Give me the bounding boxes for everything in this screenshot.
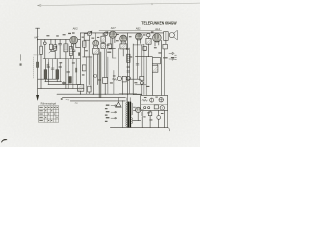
antenna terminal bar [36,27,40,29]
wire [75,59,77,85]
pot P2 [56,70,59,80]
coil L4 [69,47,72,56]
wire [113,70,115,94]
ABL1 legs [137,40,140,45]
hv feed box [140,76,144,80]
wire [88,40,90,84]
svg-text:AF7: AF7 [111,26,116,30]
tube AK2 [70,36,78,44]
secondary winding [132,103,133,115]
resistor R1 tall box [40,40,42,47]
choke coil [127,54,130,62]
wire [102,33,104,44]
wire [79,91,81,94]
capacitor C6 [72,50,75,59]
bus line [43,58,80,60]
bottom power rail [110,127,167,129]
wire [47,59,49,85]
V3 legs [121,42,125,56]
resistor R20 zigzag [142,99,147,101]
wire [93,54,97,94]
wire [147,37,149,57]
svg-text:TELEFUNKEN 664GW: TELEFUNKEN 664GW [141,21,177,26]
node [148,56,149,57]
wire pair [128,48,130,94]
ground arrow (chassis) [36,95,39,101]
antenna wire (off-page, faint) [38,3,201,6]
wire [149,110,151,127]
wire mains drop [122,101,124,128]
wire [163,110,165,127]
wire [113,57,116,59]
bottom rail B [62,97,125,99]
jack J2 [169,58,174,60]
AL4 legs [155,42,159,46]
mains labels [105,105,110,122]
wire [98,49,100,52]
wire [143,44,145,94]
node dots bottom rail [80,94,134,95]
osc electrodes [94,41,97,45]
pilot lamp [150,98,154,102]
long wire right [161,40,163,95]
tube AF7 [109,31,116,38]
wire [85,57,87,94]
bus segment [135,84,146,86]
wire [164,49,166,96]
wire [88,92,90,94]
rail hook [168,128,170,131]
antenna wire junction bead [151,3,153,5]
switch circle with cross [159,98,163,102]
contact marks [175,55,177,59]
wire [90,57,92,89]
antenna wire arrowhead [38,4,42,6]
wire [54,50,56,59]
wire pair down [104,49,106,78]
wire [145,56,147,95]
variable capacitor VC2 [104,32,108,36]
wire [133,94,142,96]
wire box edge down [167,110,169,127]
bus line [45,81,62,83]
top rail [80,32,163,34]
wire [107,57,109,94]
primary winding [126,102,127,126]
speaker [169,33,174,38]
table entries [39,98,62,121]
switch S1 circle [43,42,46,45]
coil L5 box [83,41,86,47]
wire [122,79,123,95]
AK2 electrodes [71,37,76,43]
wire [126,98,128,102]
AK2 legs [72,44,76,50]
osc section wire [84,34,87,41]
wire link [133,44,144,46]
trimmer arrow [49,46,57,53]
svg-text:Röhrenspiegel: Röhrenspiegel [41,103,57,106]
wire [76,47,81,49]
grid cap small circle [147,33,150,36]
wire [95,33,97,40]
wire [44,59,46,82]
bus [135,55,152,57]
resistor box R7 [103,78,108,84]
wire [70,40,73,59]
corner squiggle [2,139,7,142]
chassis box power unit [141,95,168,110]
wire [65,52,67,89]
V3 electrodes [121,36,125,41]
capacitor box C11 [88,86,91,92]
AL4 electrodes [154,34,159,41]
wire [84,36,89,41]
svg-text:AK2: AK2 [73,26,79,30]
wire [141,45,143,96]
resistor box R5 [82,65,86,71]
IF transformer T-IF1 [101,36,105,42]
antenna lead-in vertical [37,28,39,95]
resistor R8 zigzag [112,78,117,80]
V3 coupling can [120,44,127,49]
margin mark dash [20,55,22,61]
wire [141,117,143,128]
wire [109,48,116,58]
capacitor C7 [67,72,70,73]
capacitor C5 [62,82,65,85]
svg-text:AB2: AB2 [136,28,141,31]
detector circle [126,76,130,80]
coil L2 [54,40,56,45]
svg-text:4 g: 4 g [75,103,78,105]
wire [52,59,54,79]
coil L3 [65,40,67,44]
node [122,100,123,101]
capacitor C4 [51,68,54,69]
wire [51,50,55,52]
AF7 electrodes [110,32,115,37]
ABL1 electrodes [137,34,141,39]
wire [141,109,144,111]
small circle node osc [94,74,97,77]
wire stub [34,54,41,56]
shielded lead pair [99,52,101,98]
bottom rail A [57,93,141,95]
wire [165,40,167,44]
coupling can hatched [146,38,151,44]
wire [137,45,139,79]
wire [133,107,135,110]
wire [128,78,141,80]
tube bandpass V3 [120,35,127,42]
shield dashed line [33,57,35,79]
output transformer [164,32,169,41]
IF can hatched [78,85,84,92]
electrolytic block [69,77,72,84]
variable capacitor VC1 [88,31,92,35]
node antenna/rail [37,39,38,40]
capacitor C14 [126,48,129,49]
pot P1 wiper [47,62,49,81]
rectifier tube [136,107,141,112]
tube ABL1 [135,33,142,40]
long wire [79,33,81,85]
internal shelf [141,104,168,106]
coupling cap box [143,46,146,50]
jack J1 [169,52,174,54]
capacitor block hatched [152,65,158,72]
capacitor C1 box [50,40,52,45]
pot P2 wiper [59,62,61,81]
wire [40,54,42,88]
power transformer core [127,102,129,128]
capacitor C15 [127,66,130,72]
osc coil hatched box [93,46,97,48]
wire [67,59,69,89]
antenna coil L1 [36,62,38,68]
wire [133,113,141,121]
speaker field triangle [116,102,121,106]
svg-text:a g: a g [66,99,69,101]
tube osc triode [93,40,99,46]
margin mark glyph [20,63,22,65]
small circle node [140,82,143,85]
resistor box R9 [122,76,126,82]
capacitor C16 [136,64,139,65]
bus line [38,78,57,80]
fuse box [154,105,158,109]
mains arrows [111,105,117,107]
wire [72,59,74,89]
bus line [38,88,84,90]
svg-text:AAT: AAT [34,37,39,40]
switch S1 contact [44,40,46,42]
tube table grid [39,106,59,122]
node dots on input rail [44,39,72,40]
wire core taps [127,94,130,101]
trimmer box [108,44,112,49]
resistor box R14 [163,44,167,49]
wire [56,59,58,82]
AVC rail [99,30,162,32]
resistor box R12 [152,57,160,63]
volume pot P1 [44,70,47,80]
resistor R2 blob [75,68,77,73]
resistor R21 vertical zigzag [141,111,143,117]
capacitor block [148,112,151,116]
wire [44,45,46,59]
long wire [127,33,129,94]
wire [104,83,106,94]
wire [83,47,92,57]
small lamp [157,116,161,120]
resistor R3 blob [78,52,80,55]
tube AL4 [153,34,162,43]
tube diode el [117,77,121,81]
wire [117,98,119,103]
wire [118,48,120,77]
value labels specks [46,31,174,120]
capacitor C2 [59,40,62,59]
bottom rail C [70,100,125,102]
AF7 legs [111,38,115,49]
wire [158,110,160,127]
bus line [48,84,80,86]
heater winding [132,118,133,124]
socket circles [144,107,146,109]
meter circle [160,106,164,110]
input rail [38,39,81,41]
wire [152,64,157,96]
long wire [132,44,134,94]
